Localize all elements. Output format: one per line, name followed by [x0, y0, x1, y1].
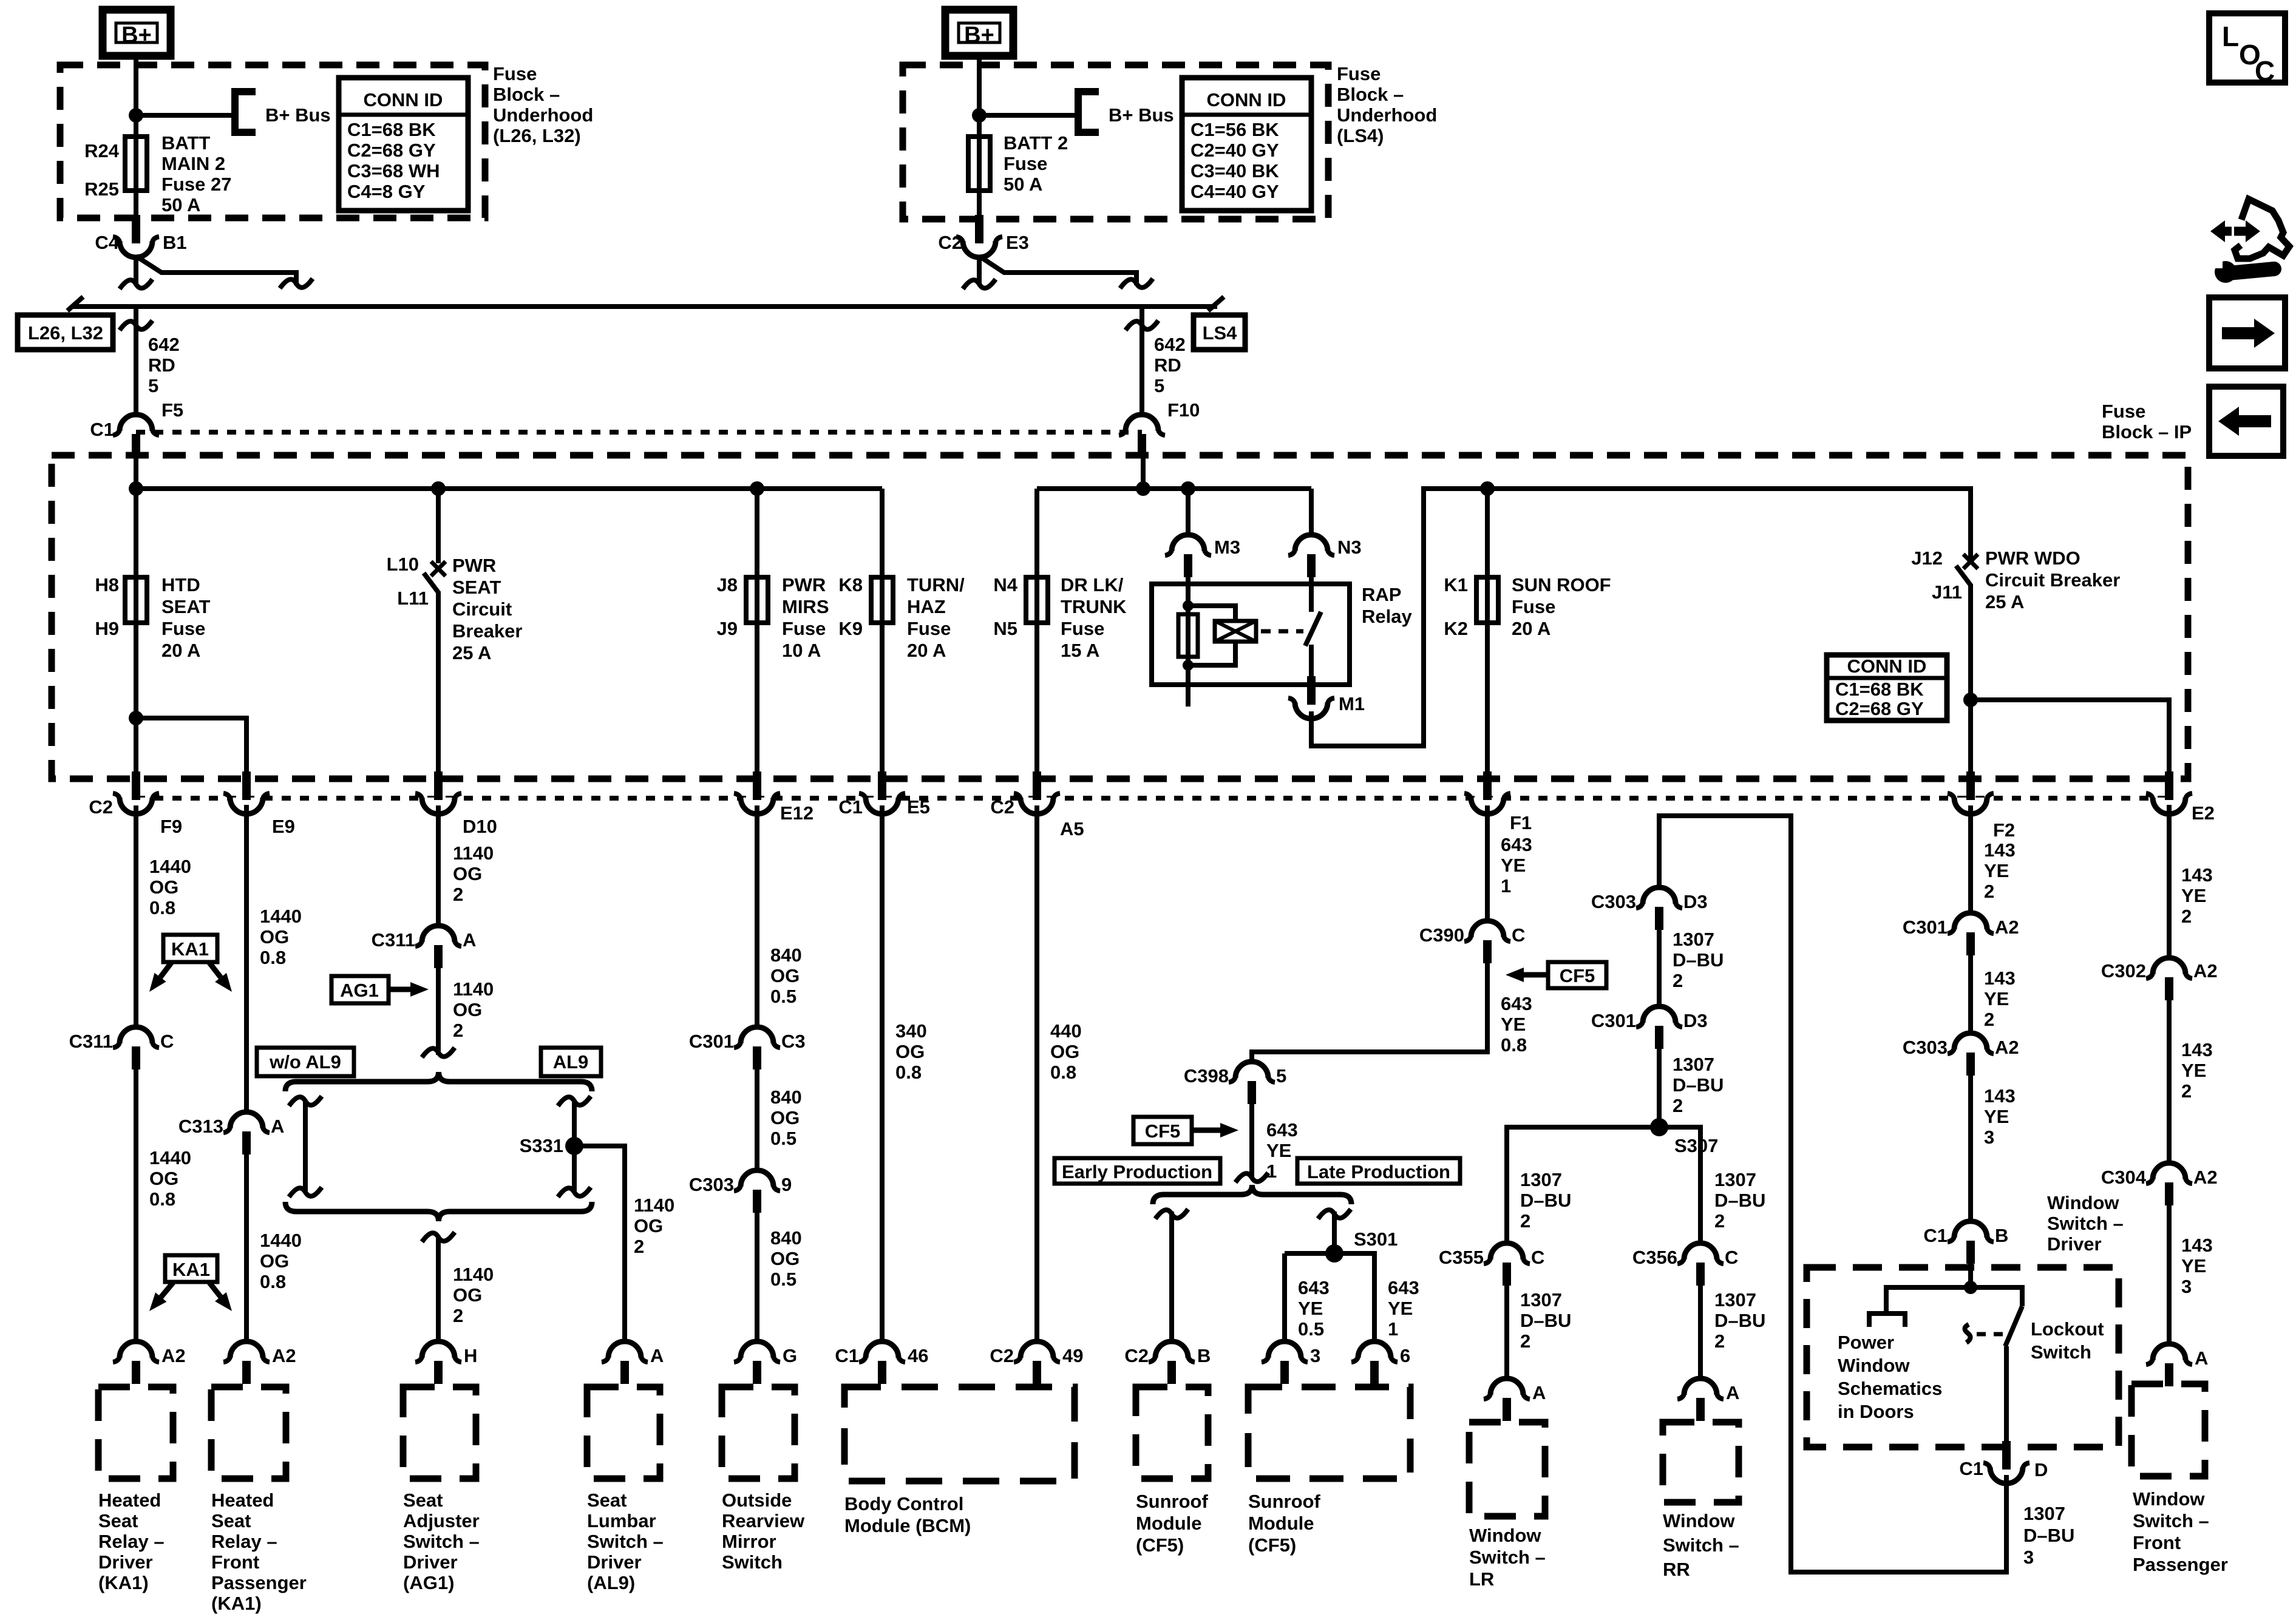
label Window Switch Front Passenger: [2133, 1488, 2228, 1575]
label B1: [163, 232, 187, 253]
label 643 YE 1 (C398): [1266, 1119, 1298, 1182]
break symbol 642 RD right: [1126, 320, 1158, 330]
svg-text:C2=40 GY: C2=40 GY: [1190, 140, 1279, 161]
label J12: [1911, 547, 1943, 569]
svg-text:Seat: Seat: [98, 1510, 138, 1531]
label G: [783, 1345, 797, 1366]
svg-text:R24: R24: [84, 140, 120, 161]
CONN ID table (IP): [1827, 655, 1947, 720]
label A2 (C301): [1995, 917, 2019, 938]
wire bus to PWR SEAT breaker: [436, 489, 441, 563]
label N3: [1337, 537, 1362, 558]
label A2 (passenger relay): [272, 1345, 296, 1366]
fuse PWR MIRS 10A: [746, 577, 768, 623]
svg-text:B+ Bus: B+ Bus: [1109, 104, 1174, 126]
connector 49 (BCM C2): [1014, 1341, 1060, 1384]
connector C4/B1: [113, 215, 159, 257]
label S301: [1354, 1229, 1398, 1250]
label 1307 D-BU 2 (c355 above): [1520, 1169, 1571, 1232]
label 642 RD 5 (left): [148, 334, 180, 396]
label Seat Adjuster Switch Driver (AG1): [403, 1490, 480, 1593]
svg-text:DR LK/: DR LK/: [1061, 574, 1124, 595]
label BATT MAIN 2 Fuse 27 50 A: [161, 132, 231, 215]
wire S307 right branch: [1659, 1127, 1700, 1243]
svg-text:1307: 1307: [1714, 1289, 1756, 1310]
label C (C311): [160, 1031, 174, 1052]
svg-text:Fuse: Fuse: [1512, 596, 1555, 617]
svg-text:1: 1: [1266, 1161, 1277, 1182]
connector F1: [1464, 771, 1510, 814]
svg-text:OG: OG: [149, 1168, 178, 1189]
svg-text:9: 9: [781, 1174, 792, 1195]
wire PWR SEAT breaker down: [436, 591, 441, 776]
label Window Switch RR: [1663, 1510, 1739, 1580]
label R25: [84, 178, 119, 200]
svg-text:643: 643: [1298, 1277, 1330, 1298]
wire C303 A2 down: [1968, 1076, 1973, 1221]
label 340 OG 0.8: [895, 1020, 927, 1083]
wire 642 RD left: [134, 309, 138, 419]
svg-text:MAIN 2: MAIN 2: [161, 153, 225, 174]
break symbol 642 RD left: [120, 320, 152, 330]
svg-text:OG: OG: [770, 1107, 800, 1128]
svg-text:C3=40 BK: C3=40 BK: [1190, 160, 1279, 181]
arrow KA1 left (upper): [149, 962, 172, 992]
label C3: [781, 1031, 806, 1052]
svg-text:CONN ID: CONN ID: [364, 89, 443, 110]
wire bus to SUN ROOF fuse: [1485, 489, 1490, 776]
connector F10 (IP): [1119, 415, 1165, 458]
label Fuse Block Underhood (L26,L32): [493, 63, 593, 146]
svg-text:C1: C1: [90, 419, 114, 440]
svg-text:(AG1): (AG1): [403, 1572, 454, 1593]
connector D10: [415, 771, 461, 814]
svg-text:143: 143: [2181, 1235, 2213, 1256]
svg-text:C1=68 BK: C1=68 BK: [1835, 679, 1924, 700]
connector M1: [1288, 676, 1334, 719]
wire B+ to fuse BATT MAIN 2: [134, 56, 138, 217]
svg-text:Module: Module: [1136, 1513, 1202, 1534]
wire C1/D to S307 riser: [1659, 816, 2006, 1572]
svg-text:0.8: 0.8: [895, 1062, 922, 1083]
svg-text:2: 2: [453, 1020, 463, 1041]
svg-text:Driver: Driver: [403, 1551, 458, 1573]
svg-text:3: 3: [1310, 1345, 1320, 1366]
svg-text:OG: OG: [260, 926, 289, 947]
connector C1/B (driver switch): [1948, 1221, 1994, 1264]
svg-text:C356: C356: [1632, 1247, 1677, 1268]
relay switch wire from N3: [1309, 574, 1314, 612]
label K2: [1444, 618, 1468, 639]
label C4: [95, 232, 119, 253]
svg-text:G: G: [783, 1345, 797, 1366]
break symbol w/o AL9 top: [289, 1096, 322, 1106]
label box Late Production: [1297, 1158, 1460, 1184]
svg-text:LS4: LS4: [1203, 322, 1238, 344]
arrow KA1 right (lower): [209, 1282, 232, 1311]
label Fuse Block Underhood (LS4): [1337, 63, 1437, 146]
svg-text:D–BU: D–BU: [1714, 1190, 1765, 1211]
break symbol branch (right): [1120, 279, 1153, 288]
label C311 (C): [69, 1031, 113, 1052]
wire E2 down: [2167, 805, 2172, 957]
svg-text:Switch –: Switch –: [1469, 1547, 1546, 1568]
svg-text:C313: C313: [178, 1116, 223, 1137]
label C356: [1632, 1247, 1677, 1268]
svg-text:2: 2: [1984, 1009, 1994, 1030]
svg-text:OG: OG: [895, 1041, 925, 1062]
label SUN ROOF Fuse 20 A: [1512, 574, 1611, 639]
label box LS4: [1194, 315, 1245, 350]
svg-text:B+: B+: [964, 22, 994, 48]
label K1: [1444, 574, 1468, 595]
label DR LK/TRUNK Fuse 15 A: [1061, 574, 1127, 661]
svg-text:Front: Front: [211, 1551, 259, 1573]
connector boundary dotted (top): [136, 430, 1142, 435]
svg-text:RD: RD: [148, 354, 175, 376]
svg-text:AG1: AG1: [340, 980, 379, 1001]
label R24: [84, 140, 120, 161]
svg-text:50 A: 50 A: [1004, 174, 1042, 195]
connector A (lumbar): [602, 1341, 648, 1384]
svg-text:A2: A2: [2193, 1167, 2218, 1188]
CONN ID table (LS4): [1182, 78, 1311, 211]
connector C1/E5: [859, 771, 905, 814]
icon hand outline: [2235, 199, 2289, 259]
svg-text:E5: E5: [907, 796, 930, 818]
label 1307 D-BU 2 (c356 above): [1714, 1169, 1765, 1232]
svg-text:L11: L11: [397, 588, 429, 609]
svg-text:D3: D3: [1683, 891, 1708, 912]
connector C398/5: [1229, 1062, 1275, 1104]
wire E12 down: [755, 805, 759, 1027]
svg-text:643: 643: [1501, 834, 1532, 855]
svg-text:OG: OG: [453, 999, 482, 1020]
bus wire IP (left): [136, 486, 882, 491]
svg-text:Window: Window: [2047, 1192, 2119, 1213]
svg-text:0.8: 0.8: [149, 1188, 175, 1210]
svg-text:840: 840: [770, 1086, 802, 1108]
svg-text:K1: K1: [1444, 574, 1468, 595]
connector C356/C: [1677, 1243, 1724, 1286]
CONN ID table (L26,L32): [339, 78, 468, 211]
svg-text:Switch –: Switch –: [403, 1531, 480, 1552]
arrow CF5 right: [1192, 1123, 1238, 1137]
connector 3 (sunroof2): [1262, 1341, 1308, 1384]
label A (FP): [2195, 1347, 2208, 1369]
svg-text:1307: 1307: [1520, 1169, 1562, 1190]
svg-text:YE: YE: [1984, 1106, 2009, 1127]
node bus at PWR SEAT: [431, 481, 446, 496]
wire branch to E2: [1971, 700, 2169, 776]
svg-text:0.5: 0.5: [770, 1128, 796, 1149]
svg-text:A2: A2: [272, 1345, 296, 1366]
connector C311/A (seat): [415, 926, 461, 968]
label 3 (sunroof2): [1310, 1345, 1320, 1366]
svg-text:B: B: [1995, 1225, 2008, 1246]
svg-text:CONN ID: CONN ID: [1207, 89, 1286, 110]
wire C311 down: [134, 1070, 138, 1343]
label F10: [1167, 399, 1200, 421]
svg-text:1140: 1140: [453, 978, 494, 1000]
svg-text:2: 2: [1520, 1210, 1530, 1232]
label B (sunroof1): [1197, 1345, 1211, 1366]
svg-text:5: 5: [148, 375, 158, 396]
label C304: [2101, 1167, 2147, 1188]
svg-text:YE: YE: [1298, 1298, 1323, 1319]
svg-text:C4: C4: [95, 232, 119, 253]
svg-text:K8: K8: [838, 574, 863, 595]
label 143 YE 2 (F2 b): [1984, 968, 2016, 1030]
label A5: [1060, 818, 1084, 839]
svg-text:Relay –: Relay –: [98, 1531, 165, 1552]
label S307: [1674, 1135, 1718, 1156]
svg-text:(CF5): (CF5): [1136, 1534, 1184, 1556]
svg-text:3: 3: [1984, 1127, 1994, 1148]
svg-text:2: 2: [1714, 1210, 1725, 1232]
wire merged to H: [436, 1236, 441, 1343]
Seat Adjuster Switch box: [403, 1387, 476, 1479]
label B (driver switch): [1995, 1225, 2008, 1246]
connector C2/E3: [956, 215, 1002, 257]
svg-text:Block – IP: Block – IP: [2102, 421, 2192, 442]
label C (C355): [1531, 1247, 1544, 1268]
connector E12: [734, 771, 780, 814]
svg-text:YE: YE: [1984, 860, 2009, 881]
svg-text:D3: D3: [1683, 1010, 1708, 1031]
wire branch B1 diagonal: [136, 256, 296, 285]
svg-text:KA1: KA1: [172, 1259, 210, 1280]
label 840 OG 0.5 (b): [770, 1086, 802, 1149]
svg-text:C: C: [2255, 55, 2275, 87]
wire F10 into bus: [1141, 458, 1146, 489]
label D3 (C303): [1683, 891, 1708, 912]
label A (LR): [1532, 1382, 1546, 1403]
Window Switch LR box: [1469, 1422, 1545, 1516]
label A2 (driver relay): [161, 1345, 186, 1366]
connector A (LR switch): [1484, 1378, 1530, 1421]
svg-text:YE: YE: [2181, 1060, 2206, 1081]
label K8: [838, 574, 863, 595]
label M1: [1339, 693, 1365, 714]
svg-text:46: 46: [908, 1345, 928, 1366]
svg-text:Window: Window: [2133, 1488, 2205, 1510]
label 1307 D-BU 2 (b): [1673, 1054, 1724, 1116]
break symbol early branch: [1155, 1209, 1188, 1219]
svg-text:N3: N3: [1337, 537, 1362, 558]
label 143 YE 3 (F2 c): [1984, 1085, 2016, 1148]
svg-text:C1=68 BK: C1=68 BK: [347, 119, 436, 140]
label E2: [2192, 802, 2215, 824]
svg-text:Window: Window: [1663, 1510, 1735, 1531]
label box KA1 (lower): [165, 1255, 217, 1282]
wire branch E3 diagonal: [979, 256, 1136, 285]
svg-text:KA1: KA1: [171, 938, 209, 960]
label 143 YE 2 (F2 a): [1984, 839, 2016, 902]
B+ Bus bracket (left): [235, 92, 256, 132]
relay diode box: [1215, 621, 1256, 642]
label A (RR): [1726, 1382, 1739, 1403]
svg-text:F1: F1: [1510, 812, 1532, 833]
svg-text:1440: 1440: [260, 906, 302, 927]
wire F2 down: [1968, 805, 1973, 913]
label BATT 2 Fuse 50 A: [1004, 132, 1068, 195]
label box L26,L32: [18, 315, 113, 350]
svg-text:2: 2: [2181, 1080, 2192, 1102]
label PWR MIRS Fuse 10 A: [782, 574, 829, 661]
svg-text:1307: 1307: [2023, 1503, 2065, 1524]
svg-text:0.8: 0.8: [260, 947, 286, 968]
svg-text:A2: A2: [161, 1345, 186, 1366]
svg-text:YE: YE: [1501, 1014, 1526, 1035]
connector 6 (sunroof2): [1351, 1341, 1398, 1384]
label A2 (C303): [1995, 1037, 2019, 1058]
wire D10 down: [436, 805, 441, 926]
relay switch wire to M1: [1309, 645, 1314, 686]
Fuse Block Underhood box (LS4) dashed: [903, 65, 1328, 219]
svg-text:PWR WDO: PWR WDO: [1985, 547, 2080, 569]
RAP relay box: [1152, 584, 1350, 685]
svg-text:A2: A2: [1995, 917, 2019, 938]
svg-text:C1: C1: [835, 1345, 859, 1366]
svg-text:LR: LR: [1469, 1568, 1494, 1590]
label N5: [993, 618, 1017, 639]
svg-text:49: 49: [1062, 1345, 1083, 1366]
svg-text:1140: 1140: [453, 1264, 494, 1285]
label Window Switch Driver: [2047, 1192, 2124, 1255]
svg-text:Underhood: Underhood: [1337, 104, 1437, 126]
label E3: [1006, 232, 1029, 253]
svg-text:Fuse: Fuse: [161, 618, 205, 639]
svg-text:C3=68 WH: C3=68 WH: [347, 160, 440, 181]
node bus at RAP coil: [1181, 481, 1195, 496]
svg-text:C: C: [160, 1031, 174, 1052]
wire S331 branch: [574, 1146, 625, 1343]
connector A2 (driver relay): [113, 1341, 159, 1384]
svg-text:Switch –: Switch –: [587, 1531, 664, 1552]
svg-text:15 A: 15 A: [1061, 640, 1099, 661]
connector H: [415, 1341, 461, 1384]
wire B+ to fuse BATT 2: [977, 56, 982, 219]
line end slash left: [67, 297, 83, 311]
svg-text:2: 2: [1673, 970, 1683, 991]
svg-text:C2: C2: [938, 232, 962, 253]
svg-text:C2: C2: [990, 796, 1014, 818]
fuse BATT MAIN 2 50A: [125, 137, 147, 191]
svg-text:C301: C301: [689, 1031, 734, 1052]
connector B (sunroof1): [1149, 1341, 1195, 1384]
svg-text:1440: 1440: [149, 856, 191, 877]
label C1 (46): [835, 1345, 859, 1366]
label 1307 D-BU 2 (a): [1673, 929, 1724, 991]
svg-text:Fuse: Fuse: [493, 63, 537, 84]
label A (C311 seat): [463, 929, 476, 951]
svg-text:PWR: PWR: [452, 555, 496, 576]
svg-text:2: 2: [2181, 906, 2192, 927]
svg-text:YE: YE: [2181, 1255, 2206, 1276]
B+ power symbol (right): [945, 10, 1013, 56]
svg-text:5: 5: [1154, 375, 1164, 396]
lockout switch blade: [2005, 1306, 2022, 1346]
svg-text:HAZ: HAZ: [907, 596, 946, 617]
relay coil resistor: [1178, 614, 1198, 657]
B+ Bus bracket (right): [1078, 92, 1099, 132]
svg-text:C304: C304: [2101, 1167, 2147, 1188]
svg-text:C2: C2: [1124, 1345, 1149, 1366]
svg-text:YE: YE: [1388, 1298, 1413, 1319]
svg-text:L10: L10: [387, 554, 419, 575]
wire bus to TURN/HAZ fuse: [880, 489, 885, 776]
icon arrow left box: [2209, 387, 2283, 456]
svg-text:(AL9): (AL9): [587, 1572, 635, 1593]
connector N3: [1288, 535, 1334, 585]
label N4: [993, 574, 1017, 595]
label F9: [160, 816, 182, 837]
svg-text:Fuse: Fuse: [907, 618, 951, 639]
svg-text:M1: M1: [1339, 693, 1365, 714]
label 1140 OG 2 (col3 b): [453, 978, 494, 1041]
wire C303 D3 down: [1657, 930, 1662, 1006]
svg-text:Heated: Heated: [211, 1490, 274, 1511]
wire late branch: [1332, 1212, 1337, 1253]
connector C303/D3: [1636, 887, 1682, 930]
relay coil wire top: [1186, 574, 1190, 707]
svg-text:RR: RR: [1663, 1559, 1690, 1580]
node branch E9: [129, 711, 143, 725]
label Lockout Switch: [2031, 1318, 2104, 1363]
svg-text:Outside: Outside: [722, 1490, 792, 1511]
svg-text:OG: OG: [770, 965, 800, 986]
svg-text:Driver: Driver: [587, 1551, 642, 1573]
svg-text:(KA1): (KA1): [98, 1572, 149, 1593]
svg-text:F10: F10: [1167, 399, 1200, 421]
svg-text:A: A: [271, 1116, 284, 1137]
label Power Window Schematics in Doors: [1838, 1332, 1942, 1422]
svg-text:PWR: PWR: [782, 574, 826, 595]
svg-text:C301: C301: [1903, 917, 1948, 938]
label box CF5 (left arrow): [1548, 962, 1606, 988]
svg-text:Fuse: Fuse: [1337, 63, 1381, 84]
label Sunroof Module (CF5) 2: [1248, 1491, 1320, 1556]
label 1307 D-BU 2 (c356 below): [1714, 1289, 1765, 1352]
wire lockout left branch: [1886, 1287, 1971, 1314]
svg-text:D–BU: D–BU: [1520, 1310, 1571, 1331]
svg-text:642: 642: [148, 334, 180, 355]
svg-text:C: C: [1725, 1247, 1738, 1268]
svg-text:Breaker: Breaker: [452, 620, 522, 642]
Sunroof Module box 2: [1248, 1387, 1410, 1479]
svg-text:N4: N4: [993, 574, 1017, 595]
label D3 (C301): [1683, 1010, 1708, 1031]
svg-text:L26, L32: L26, L32: [28, 322, 103, 344]
svg-text:in Doors: in Doors: [1838, 1401, 1914, 1422]
label 1140 OG 2 (col4): [634, 1195, 674, 1257]
arrow AG1: [389, 982, 429, 997]
label C2 (F9): [89, 796, 113, 818]
node S307: [1650, 1118, 1668, 1136]
label 143 YE 3 (E2 c): [2181, 1235, 2213, 1297]
svg-text:2: 2: [1984, 881, 1994, 902]
svg-text:F5: F5: [161, 399, 183, 421]
svg-text:H9: H9: [95, 618, 119, 639]
fuse TURN/HAZ 20A: [871, 577, 893, 623]
svg-text:Switch –: Switch –: [2133, 1510, 2209, 1531]
label S331: [520, 1135, 563, 1156]
svg-text:TURN/: TURN/: [907, 574, 965, 595]
label C313 (A): [178, 1116, 223, 1137]
label 643 YE 0.8: [1501, 993, 1532, 1056]
svg-text:3: 3: [2023, 1547, 2034, 1568]
